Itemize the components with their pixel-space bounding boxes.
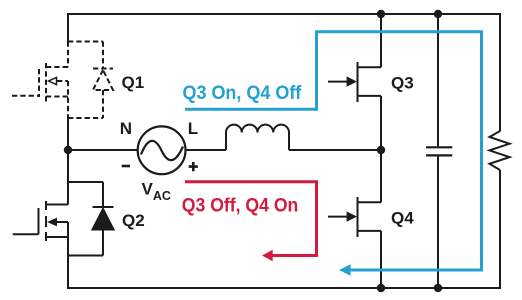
svg-text:N: N <box>120 119 132 138</box>
wire: Q3 source to node B <box>380 96 382 150</box>
Q1 drain lead <box>46 66 68 68</box>
Q3 channel bar <box>357 62 359 102</box>
Q4 drain lead <box>358 201 382 203</box>
Q4 gate lead <box>328 216 347 218</box>
node: Q4 source dot <box>377 284 385 292</box>
blue path arrowhead <box>339 264 351 275</box>
Q1 body lead <box>57 80 68 82</box>
Q1 gate electrode <box>38 69 40 97</box>
wire: bottom bus <box>67 287 501 289</box>
wire: Q1 drain riser <box>67 42 69 68</box>
transistor Q1 (dashed phantom MOSFET) <box>12 42 103 119</box>
transistor Q1 body arrow <box>49 77 57 84</box>
wire: Q2 body-source tie <box>67 222 69 237</box>
diode cathode bar <box>93 68 113 70</box>
wire: Q4 source to bottom bus <box>380 231 382 288</box>
AC source sine wave <box>141 141 183 160</box>
AC source VAC <box>138 126 186 174</box>
node: capacitor top dot <box>434 10 442 18</box>
svg-text:L: L <box>188 119 198 138</box>
Q3 gate lead <box>328 81 347 83</box>
Q1 channel bar <box>45 63 47 103</box>
red path arrowhead <box>262 250 273 262</box>
wire: right bus upper <box>499 13 501 132</box>
svg-text:Q1: Q1 <box>122 73 145 92</box>
wire: left bus middle (Q1 box to Q2 drain) <box>67 118 69 205</box>
Q2 gate lead <box>13 233 39 235</box>
wire: Q2 diode branch top <box>68 181 103 183</box>
inductor L <box>226 125 289 150</box>
wire: blue current path (Q3 on) <box>185 32 482 270</box>
node: capacitor bottom dot <box>434 284 442 292</box>
wire: Q1 body-source tie <box>67 81 69 118</box>
plus terminal <box>189 162 198 171</box>
wire: Q1 branch top <box>68 41 103 43</box>
Q1 source lead <box>46 96 68 98</box>
Q2 drain lead <box>46 204 68 206</box>
Q4 channel bar <box>357 197 359 237</box>
diode anode triangle <box>93 70 113 90</box>
diode: Q2 body diode <box>93 182 114 256</box>
svg-text:VAC: VAC <box>142 180 171 203</box>
capacitor bottom plate <box>426 154 452 156</box>
minus terminal <box>122 165 130 168</box>
transistor Q2 (MOSFET) <box>13 201 68 241</box>
AC source circle <box>138 126 186 174</box>
diode: Q1 body diode (dashed) <box>93 42 113 119</box>
Q1 gate lead <box>12 95 39 97</box>
transistor Q3 gate arrow <box>347 76 357 86</box>
svg-text:Q2: Q2 <box>122 211 145 230</box>
wire: red current path (Q4 on) <box>185 182 317 256</box>
transistor Q4 gate arrow <box>347 211 357 221</box>
wire: inductor to node B <box>289 149 382 151</box>
Q3 drain lead <box>358 66 382 68</box>
wire: AC line from node A to source <box>67 149 138 151</box>
wire: left bus top (to Q1 box) <box>67 13 69 42</box>
Q2 channel segment bottom <box>45 232 47 241</box>
capacitor top plate <box>426 146 452 148</box>
resistor R1 (load) <box>490 131 510 170</box>
node: AC junction dot <box>64 146 72 154</box>
wire: diode cathode lead <box>102 42 104 69</box>
capacitor C1 <box>426 14 452 288</box>
wire: Q1 branch bottom <box>68 117 103 119</box>
Q2 gate electrode <box>38 208 40 234</box>
Q2 source lead <box>46 236 68 238</box>
Q2 body lead <box>56 221 68 223</box>
transistor Q4 (MOSFET) <box>328 150 381 288</box>
wire: diode cathode lead <box>102 182 104 207</box>
svg-text:Q3: Q3 <box>391 74 414 93</box>
diode cathode bar <box>93 206 114 208</box>
wire: capacitor top lead <box>437 14 439 146</box>
Q2 channel segment top <box>45 201 47 210</box>
wire: diode anode lead <box>102 90 104 118</box>
wire: diode anode lead <box>102 230 104 256</box>
node: half-bridge midpoint dot <box>377 146 385 154</box>
diode anode triangle <box>93 209 114 230</box>
svg-text:Q3 On, Q4 Off: Q3 On, Q4 Off <box>183 83 302 104</box>
wire: Q3 drain riser <box>380 14 382 67</box>
Q2 channel segment middle <box>45 216 47 227</box>
transistor Q3 (MOSFET) <box>328 14 381 150</box>
wire: Q4 drain riser from node B <box>380 150 382 202</box>
transistor Q2 body arrow <box>47 218 57 227</box>
svg-text:Q4: Q4 <box>391 209 414 228</box>
wire: top bus <box>67 13 501 15</box>
svg-text:Q3 Off, Q4 On: Q3 Off, Q4 On <box>182 196 298 217</box>
wire: left bus bottom (Q2 source to bottom bus) <box>67 237 69 289</box>
wire: AC source to inductor <box>185 149 226 151</box>
Q3 source lead <box>358 95 382 97</box>
wire: capacitor bottom lead <box>437 156 439 288</box>
node: Q3 drain dot <box>377 10 385 18</box>
wire: right bus lower <box>499 170 501 289</box>
wire: Q2 diode branch bottom <box>68 255 103 257</box>
Q4 source lead <box>358 230 382 232</box>
